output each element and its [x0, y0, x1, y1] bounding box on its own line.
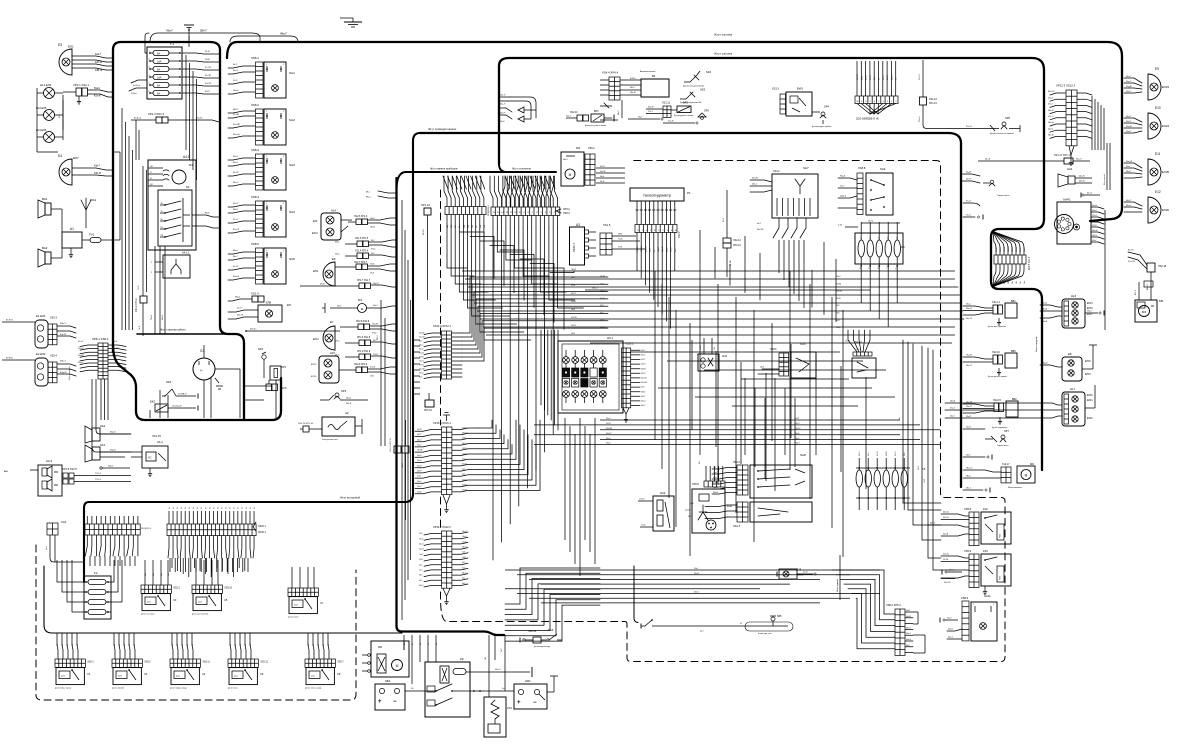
- svg-text:ЕЛ26: ЕЛ26: [1162, 208, 1169, 212]
- wire bundle - left staircase under thick junction: [505, 568, 600, 641]
- connector strip XP9.1 panel row A: [444, 176, 490, 226]
- svg-text:28-ГЧ: 28-ГЧ: [641, 391, 645, 393]
- svg-text:51а-Г: 51а-Г: [947, 618, 952, 620]
- svg-text:ХР2.8 ХS2.8: ХР2.8 ХS2.8: [356, 321, 370, 323]
- svg-text:7: 7: [870, 101, 871, 103]
- svg-text:1: 1: [895, 101, 896, 103]
- svg-text:30а-Ж4: 30а-Ж4: [419, 337, 425, 339]
- svg-text:40-ЖС: 40-ЖС: [462, 427, 468, 429]
- relay KH1: [698, 338, 728, 371]
- svg-text:43-Л: 43-Л: [205, 91, 210, 93]
- svg-text:60а-Г: 60а-Г: [906, 610, 910, 612]
- lamp unit E2 X53.4: [35, 352, 76, 386]
- svg-text:44а-С: 44а-С: [233, 182, 239, 184]
- svg-text:Датчик заднего хода: Датчик заднего хода: [534, 646, 550, 648]
- horn KA1: [85, 443, 131, 462]
- svg-text:8А: 8А: [157, 68, 160, 71]
- svg-text:Автомагнитола: Автомагнитола: [640, 70, 656, 73]
- svg-text:27б-Г: 27б-Г: [648, 111, 653, 113]
- fuse row F5: [856, 451, 926, 510]
- svg-text:GБ1: GБ1: [525, 679, 531, 683]
- svg-text:5б: 5б: [209, 507, 211, 509]
- svg-text:56в-Э: 56в-Э: [1076, 159, 1082, 161]
- svg-text:5б: 5б: [213, 507, 215, 509]
- unit A4.1 radio-tape with motor: [148, 155, 196, 250]
- svg-text:ХS7.2: ХS7.2: [678, 231, 681, 238]
- svg-text:29а-Ч: 29а-Ч: [417, 455, 421, 457]
- svg-text:20а-Ч: 20а-Ч: [346, 398, 352, 400]
- svg-text:SО4: SО4: [800, 342, 806, 346]
- svg-text:ХS5.11: ХS5.11: [202, 662, 210, 664]
- connector strip XS20.1 XP20.1: [167, 507, 267, 558]
- svg-text:43а-Ж: 43а-Ж: [233, 276, 239, 278]
- svg-text:НА4: НА4: [1067, 167, 1073, 171]
- svg-text:45а-СЗ: 45а-СЗ: [645, 246, 647, 252]
- svg-text:56б-Кч: 56б-Кч: [1016, 247, 1018, 252]
- svg-text:ЕЛ1: ЕЛ1: [68, 45, 74, 49]
- svg-text:55-ОГ: 55-ОГ: [845, 341, 850, 343]
- svg-text:Х9.3(Х2.4: Х9.3(Х2.4: [141, 528, 152, 530]
- svg-text:9а: 9а: [57, 644, 59, 646]
- wire bundle - right bus extensions: [955, 287, 964, 319]
- svg-text:54а-Р: 54а-Р: [966, 427, 972, 429]
- svg-text:ХS5.9: ХS5.9: [964, 549, 972, 553]
- svg-text:9а: 9а: [134, 644, 136, 646]
- svg-text:−: −: [393, 699, 397, 705]
- svg-text:25б-Ж: 25б-Ж: [887, 75, 889, 80]
- svg-text:47а-ПЗ: 47а-ПЗ: [1128, 261, 1135, 263]
- wire - 54v-G dead end: [963, 455, 992, 460]
- svg-text:43а-З: 43а-З: [948, 637, 953, 639]
- svg-text:SА8: SА8: [800, 453, 806, 457]
- connector XP1.8 XS1.8: [335, 337, 396, 346]
- svg-text:ХS12.1(ХР12.1: ХS12.1(ХР12.1: [433, 324, 451, 328]
- connector XS1.4: [228, 292, 264, 303]
- svg-text:56а-К: 56а-К: [110, 432, 116, 434]
- svg-text:60б-Ж: 60б-Ж: [906, 616, 911, 618]
- svg-text:30в-С: 30в-С: [666, 247, 668, 252]
- svg-text:58б-Г: 58б-Г: [233, 109, 239, 111]
- wire bundle - instrument header fan: [502, 176, 553, 207]
- svg-text:54в-В: 54в-В: [1042, 321, 1048, 323]
- svg-text:SА4: SА4: [289, 210, 295, 214]
- svg-text:45в-Б: 45в-Б: [600, 176, 604, 178]
- svg-text:42а-Г: 42а-Г: [95, 53, 102, 56]
- svg-text:ХS2.10: ХS2.10: [570, 112, 578, 114]
- svg-text:9: 9: [861, 101, 862, 103]
- svg-text:52-О: 52-О: [237, 308, 242, 310]
- wire bundle - F1 output merge verticals: [186, 55, 197, 180]
- horn HA4: [1058, 167, 1092, 187]
- svg-text:159-Ж: 159-Ж: [373, 354, 378, 356]
- svg-text:43б-О: 43б-О: [462, 547, 467, 549]
- svg-text:ХS4.4 ХР4.4: ХS4.4 ХР4.4: [602, 71, 618, 75]
- svg-text:67б-Р: 67б-Р: [1092, 225, 1098, 227]
- svg-text:17-Кч: 17-Кч: [641, 525, 646, 527]
- svg-text:ЕЛ11: ЕЛ11: [313, 271, 319, 273]
- svg-text:10: 10: [856, 101, 858, 103]
- svg-text:35а-Ч: 35а-Ч: [419, 349, 423, 351]
- svg-text:100-ОГ: 100-ОГ: [795, 428, 801, 430]
- svg-text:55а-Г: 55а-Г: [1087, 311, 1092, 313]
- svg-text:ХР6.1 ХS6.1: ХР6.1 ХS6.1: [92, 337, 109, 341]
- svg-text:30: 30: [161, 203, 163, 205]
- lamp E3 EL1 headlamp: [58, 43, 74, 75]
- svg-text:45б-Ж: 45б-Ж: [600, 166, 605, 168]
- svg-text:37б-О: 37б-О: [713, 477, 718, 479]
- wire bundle - hatch into front harness top left: [443, 176, 485, 189]
- svg-text:ХР1.16: ХР1.16: [929, 102, 938, 105]
- svg-text:100б-К: 100б-К: [840, 196, 847, 198]
- svg-text:1: 1: [266, 203, 267, 205]
- wire harness border - instrument panel loom left block: [113, 42, 244, 420]
- svg-text:ЕЛ7: ЕЛ7: [73, 156, 79, 160]
- svg-text:15: 15: [161, 211, 163, 213]
- svg-text:23а-Ж: 23а-Ж: [417, 465, 422, 467]
- connector XAP1 trailer socket: [1055, 198, 1106, 331]
- unit M4 heater motor with XS5.4: [561, 146, 595, 186]
- svg-text:реле вент.отопит.: реле вент.отопит.: [192, 614, 209, 616]
- svg-text:28а-Ч: 28а-Ч: [417, 486, 421, 488]
- svg-text:Жгут салона: Жгут салона: [714, 33, 732, 37]
- svg-text:БР2: БР2: [683, 101, 689, 105]
- svg-text:Бе-Кч-в: Бе-Кч-в: [133, 85, 140, 87]
- connector XP1.16b: [424, 393, 434, 412]
- lamp block HL5 EL13 EL14: [311, 351, 339, 383]
- svg-text:9б-З: 9б-З: [419, 570, 422, 572]
- svg-text:БВ1: БВ1: [1011, 300, 1016, 303]
- wire - inner ignition harness line: [137, 333, 228, 335]
- svg-text:ХР1.8 ХS1.8: ХР1.8 ХS1.8: [357, 337, 371, 339]
- wire - 57b-PZ riser: [59, 100, 63, 130]
- wire bus - additional center runs: [585, 288, 952, 344]
- svg-text:SА1: SА1: [289, 71, 295, 75]
- svg-text:HL2 ЕЛ5: HL2 ЕЛ5: [36, 106, 47, 110]
- svg-text:ЕЛ23: ЕЛ23: [1162, 85, 1169, 89]
- svg-text:реле: реле: [61, 676, 65, 678]
- svg-text:Жгут отопителя: Жгут отопителя: [512, 167, 531, 171]
- svg-text:9а: 9а: [328, 644, 330, 646]
- svg-text:ХS2.15: ХS2.15: [993, 399, 1002, 402]
- relay K2 glow relay: [112, 659, 151, 690]
- svg-text:Е12: Е12: [1155, 190, 1161, 194]
- svg-text:58б-Г: 58б-Г: [200, 29, 208, 33]
- svg-text:РЕЛЕ: РЕЛЕ: [1000, 576, 1002, 580]
- svg-text:4б-ПЧ: 4б-ПЧ: [877, 451, 879, 456]
- wire - F1 supply 75-G: [145, 27, 191, 53]
- svg-text:67а-ПБ: 67а-ПБ: [233, 124, 241, 126]
- svg-text:ХР12.3 ХS12.3: ХР12.3 ХS12.3: [1056, 84, 1076, 88]
- svg-text:60г-Г: 60г-Г: [906, 645, 910, 647]
- svg-text:ХS1.17 ХР1.17: ХS1.17 ХР1.17: [1054, 154, 1072, 157]
- wire bus - mid horizontal runs y420-446: [534, 418, 940, 445]
- wire - HL cluster left drop: [37, 140, 58, 152]
- wire bundle - vertical risers center field: [655, 271, 843, 557]
- svg-text:23-ЗВ: 23-ЗВ: [462, 448, 466, 450]
- svg-text:10а: 10а: [153, 573, 155, 576]
- svg-text:59а-З: 59а-З: [462, 443, 466, 445]
- svg-text:45б-Г: 45б-Г: [233, 203, 239, 205]
- sensor BP1: [270, 365, 286, 418]
- switch block XS8.8 SA9: [838, 166, 893, 215]
- svg-text:6: 6: [874, 101, 875, 103]
- svg-text:7а-Ж: 7а-Ж: [419, 554, 423, 556]
- svg-text:НL6: НL6: [1071, 294, 1077, 298]
- wire - central dashed harness boundary bottom: [625, 161, 1005, 662]
- wire harness border - instrument panel harness top: [397, 164, 557, 190]
- fuse block F1: [147, 42, 182, 99]
- svg-text:ХР1.16: ХР1.16: [424, 409, 433, 412]
- wire bundle - left of XS12.1 into border: [414, 340, 420, 394]
- svg-text:59а-З: 59а-З: [112, 341, 118, 343]
- connector XA2: [46, 520, 67, 562]
- svg-text:Е9: Е9: [1155, 67, 1159, 71]
- svg-text:ХР1.9 ХS1.9: ХР1.9 ХS1.9: [357, 351, 371, 353]
- svg-text:22-ЗЖ: 22-ЗЖ: [462, 453, 467, 455]
- relay K8 wiper relay: [305, 659, 344, 690]
- wire harness border - left block lower transition: [113, 345, 281, 420]
- svg-text:реле: реле: [234, 676, 238, 678]
- relay K4 turn hazard relay: [170, 659, 210, 690]
- svg-text:40а-С: 40а-С: [563, 159, 569, 161]
- svg-text:43а-С: 43а-С: [966, 304, 972, 306]
- wire - 54d-R 54e-R stubs: [962, 172, 995, 187]
- connector XS2.7 XP2.7: [335, 262, 396, 275]
- svg-text:SК4: SК4: [706, 70, 711, 74]
- svg-text:4: 4: [887, 238, 888, 240]
- svg-text:43б-О: 43б-О: [694, 592, 699, 594]
- svg-text:реле: реле: [147, 602, 151, 604]
- wire bundle - below strips to relay area: [90, 556, 248, 572]
- svg-text:23а-ЗВ: 23а-ЗВ: [417, 450, 422, 452]
- svg-text:М5: М5: [1159, 299, 1163, 303]
- svg-text:SА7: SА7: [803, 166, 809, 170]
- svg-text:ХР9(ХS9.1: ХР9(ХS9.1: [488, 204, 490, 216]
- svg-text:реле: реле: [198, 602, 202, 604]
- svg-text:9а: 9а: [313, 644, 315, 646]
- lamp block HL7 EL20-EL22: [945, 385, 1095, 426]
- wire bundle - XA2 drop lines: [36, 548, 84, 562]
- svg-text:9а: 9а: [129, 644, 131, 646]
- svg-text:51-З: 51-З: [233, 80, 238, 82]
- svg-text:НL4: НL4: [331, 209, 336, 213]
- svg-text:87: 87: [428, 643, 430, 645]
- svg-text:БОВ-2: БОВ-2: [630, 78, 636, 80]
- svg-text:ХS2.6 ХР1.6: ХS2.6 ХР1.6: [354, 216, 368, 218]
- svg-text:58б-КЧ: 58б-КЧ: [1008, 246, 1010, 252]
- svg-text:49а-Г: 49а-Г: [280, 32, 288, 36]
- svg-text:67-ПБ: 67-ПБ: [233, 114, 239, 116]
- connector XS8.4 XP9.4: [886, 603, 925, 655]
- resistor KL1 glow plug: [484, 697, 512, 737]
- wire harness border - relay panel box: [44, 566, 638, 633]
- connector XS2.9 XP2.9: [339, 364, 396, 378]
- svg-text:61а-ПЧ: 61а-ПЧ: [571, 317, 577, 319]
- svg-text:10а: 10а: [161, 573, 163, 576]
- svg-text:Датчик вкл. сцепления: Датчик вкл. сцепления: [988, 326, 1006, 328]
- svg-text:86: 86: [420, 643, 422, 645]
- svg-text:69в-С: 69в-С: [335, 254, 340, 256]
- svg-text:54д-Р: 54д-Р: [966, 172, 972, 174]
- svg-text:57а-О: 57а-О: [996, 247, 998, 252]
- svg-text:3: 3: [887, 101, 888, 103]
- svg-text:45е-Ж: 45е-Ж: [237, 315, 243, 317]
- svg-text:5б: 5б: [246, 507, 248, 509]
- svg-text:Е10: Е10: [1155, 106, 1161, 110]
- svg-text:9а: 9а: [77, 644, 79, 646]
- wire - top feed 49a-G: [230, 32, 298, 43]
- svg-text:Датчик стояночного тормоза: Датчик стояночного тормоза: [990, 133, 1014, 135]
- svg-text:ХSР.4 ХР9.4: ХSР.4 ХР9.4: [886, 603, 901, 607]
- lamp E4 EL7 headlamp: [58, 154, 79, 185]
- wire - 49b-Kch run: [245, 329, 340, 332]
- svg-text:74-ПЗ: 74-ПЗ: [571, 325, 576, 327]
- svg-text:М3: М3: [358, 298, 362, 302]
- svg-text:К12: К12: [983, 507, 988, 511]
- svg-text:5: 5: [878, 101, 879, 103]
- wire - F1 feeders right: [182, 51, 219, 94]
- svg-text:59б-З: 59б-З: [795, 423, 799, 425]
- svg-text:44б-ЖЧ: 44б-ЖЧ: [606, 428, 612, 430]
- svg-text:БW1: БW1: [797, 87, 803, 91]
- svg-text:29-ЧЗ: 29-ЧЗ: [417, 491, 421, 493]
- svg-text:SА11: SА11: [984, 594, 991, 598]
- svg-text:20б-Ч: 20б-Ч: [78, 348, 84, 350]
- connector XP12.3 XS12.3: [1048, 84, 1104, 166]
- svg-text:30б-ЖС: 30б-ЖС: [419, 333, 426, 335]
- flasher relay KH2 with XS5.6: [692, 461, 733, 533]
- lamp E6 EL11: [313, 257, 336, 286]
- svg-text:А3: А3: [576, 223, 580, 227]
- lamp E11 EL25: [1124, 152, 1169, 185]
- svg-text:ХР1.7 ХS1.7: ХР1.7 ХS1.7: [357, 280, 371, 282]
- svg-text:45д-Ж: 45д-Ж: [1126, 86, 1132, 88]
- svg-text:47б-Г: 47б-Г: [1135, 290, 1137, 295]
- svg-text:SБ5: SБ5: [777, 615, 782, 618]
- label - Zhgut zadniy vertical: [836, 555, 840, 600]
- svg-text:14б-Ч: 14б-Ч: [462, 531, 466, 533]
- svg-text:29б-С: 29б-С: [836, 276, 841, 278]
- svg-text:53д-С: 53д-С: [78, 362, 84, 364]
- svg-text:58г: 58г: [1020, 281, 1022, 284]
- relay K12 with XS5.8: [928, 507, 1011, 546]
- svg-text:9а: 9а: [177, 644, 179, 646]
- svg-text:58а-К: 58а-К: [233, 90, 239, 92]
- motor M6 washer with X12.17: [963, 462, 1035, 493]
- svg-text:реле блок. пуска: реле блок. пуска: [55, 688, 72, 690]
- wire bundle - hatch into front harness top right: [505, 176, 555, 189]
- svg-text:2: 2: [283, 203, 284, 205]
- svg-text:ХS2.16: ХS2.16: [992, 351, 1001, 354]
- speaker BA1: [38, 197, 62, 232]
- svg-text:1: 1: [860, 238, 861, 240]
- wire - E3 leads: [72, 53, 113, 72]
- svg-text:5б: 5б: [205, 507, 207, 509]
- svg-text:ПБ40-Т: ПБ40-Т: [572, 243, 576, 252]
- svg-text:18а-СЗ: 18а-СЗ: [966, 468, 973, 470]
- svg-text:ХS20.1: ХS20.1: [258, 525, 267, 528]
- svg-text:1: 1: [973, 604, 974, 606]
- switch SA10 with fan-in: [848, 330, 876, 378]
- lamp E12 EL26: [1124, 190, 1169, 223]
- ground - G1 bracket: [215, 378, 223, 389]
- svg-text:ХS8.3: ХS8.3: [251, 148, 259, 152]
- wire - HC1 left feed staircase: [541, 330, 558, 430]
- relay K5 heater fan relay: [192, 585, 233, 616]
- svg-text:45-ЖГ: 45-ЖГ: [205, 75, 212, 77]
- wire bus - lower horizontal runs y570-604: [505, 568, 880, 603]
- svg-text:SБ2: SБ2: [385, 679, 391, 683]
- relay K13 with XS5.9: [941, 549, 1011, 595]
- svg-text:75а-Б: 75а-Б: [151, 314, 153, 320]
- connector XP1.7 XS1.7: [300, 280, 396, 289]
- wire bundle - buses left extension into XS12 strips: [462, 277, 608, 361]
- svg-text:ХS5.10: ХS5.10: [224, 588, 232, 590]
- svg-text:45а-ПЗ: 45а-ПЗ: [752, 178, 759, 180]
- svg-text:17а-Кч: 17а-Кч: [639, 499, 645, 501]
- svg-text:150: 150: [485, 657, 487, 660]
- wire bundle - SA7 drop extensions: [779, 240, 804, 308]
- speaker BA2: [38, 246, 62, 267]
- svg-text:5б: 5б: [221, 507, 223, 509]
- svg-text:50-К: 50-К: [836, 313, 839, 315]
- wire bundle - strip A drops and staircase: [447, 226, 531, 340]
- spark plug SP2: [258, 347, 266, 378]
- connector XS1.19 XP1.19: [390, 390, 409, 520]
- wire - relay panel dashed enclosure: [36, 545, 356, 700]
- relay K7 upper right: [288, 588, 324, 619]
- svg-text:44б-С: 44б-С: [1126, 205, 1132, 207]
- svg-text:9а: 9а: [119, 644, 121, 646]
- svg-text:36б-Г: 36б-Г: [630, 87, 635, 89]
- svg-text:5б: 5б: [242, 507, 244, 509]
- svg-text:43Б-Ж: 43Б-Ж: [95, 69, 103, 72]
- svg-text:69-С: 69-С: [723, 217, 725, 222]
- wire - 70a-G stub: [628, 117, 663, 121]
- svg-text:31-Ж: 31-Ж: [641, 359, 645, 361]
- svg-text:ХS1.2 ХР1.2: ХS1.2 ХР1.2: [135, 298, 138, 312]
- svg-text:16А: 16А: [157, 76, 162, 79]
- svg-text:51б-Г: 51б-Г: [949, 570, 954, 572]
- svg-text:42в-Г: 42в-Г: [94, 165, 101, 168]
- svg-text:56б: 56б: [1016, 281, 1018, 284]
- svg-text:45е-Ж: 45е-Ж: [1126, 126, 1132, 128]
- svg-text:15а-Б: 15а-Б: [462, 541, 466, 543]
- connector XP12.2 XS12.2: [419, 525, 468, 605]
- connector XS1.16 XP1.16 riser: [919, 60, 983, 129]
- svg-text:30д-КЧ: 30д-КЧ: [662, 246, 664, 252]
- svg-text:36а-Ж: 36а-Ж: [630, 92, 636, 94]
- wire - ignition pocket links: [150, 386, 272, 418]
- svg-text:14б-Ч: 14б-Ч: [419, 538, 423, 540]
- svg-text:Е5: Е5: [287, 303, 291, 307]
- wire - left stubs second harness: [600, 100, 622, 120]
- switch S1 ignition inside A4.1: [158, 185, 192, 246]
- connector 202 instrument feed: [855, 61, 898, 121]
- sensor BV1 with XS1.14: [963, 300, 1017, 328]
- wire - vertical label row under strips: [447, 225, 486, 228]
- svg-text:57б-Ч: 57б-Ч: [895, 452, 897, 456]
- svg-text:69е-Г: 69е-Г: [337, 306, 341, 308]
- svg-text:44-СР: 44-СР: [205, 83, 212, 85]
- svg-text:КА1: КА1: [100, 443, 106, 447]
- svg-text:5б: 5б: [217, 507, 219, 509]
- svg-text:Электронные часы: Электронные часы: [322, 439, 339, 441]
- wire - feeds to K3 K5 K7 strips: [145, 560, 314, 588]
- wire - E4 leads: [72, 165, 113, 177]
- svg-text:45а-ПБ: 45а-ПБ: [600, 171, 605, 173]
- buzzer HA3: [638, 491, 674, 531]
